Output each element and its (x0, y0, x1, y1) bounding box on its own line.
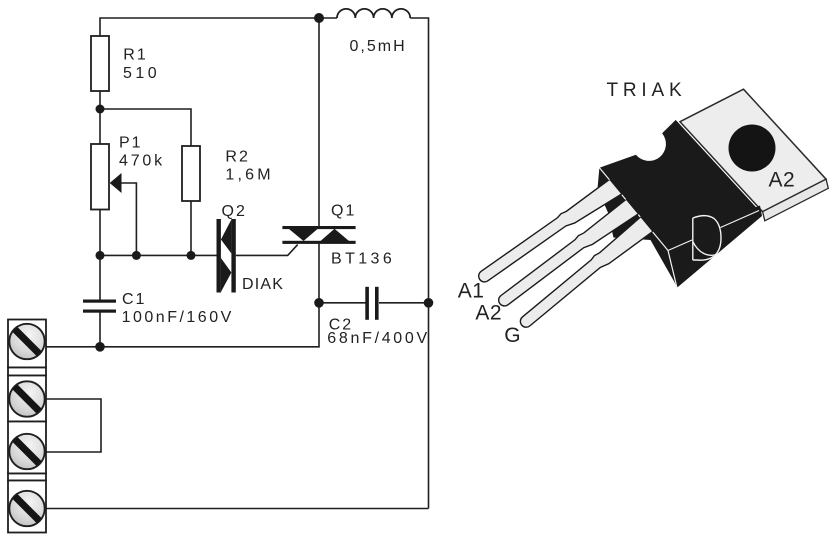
wire R2 bottom to node B rail (190, 201, 192, 255)
wire jumper terminal 2 to terminal 3 (46, 399, 101, 452)
label R1 value (123, 47, 160, 83)
svg-text:DIAK: DIAK (242, 276, 284, 293)
svg-text:510: 510 (123, 65, 160, 82)
wire right rail down from inductor (410, 18, 428, 509)
svg-text:BT136: BT136 (331, 250, 395, 267)
junction node B left (P1 bottom) (96, 251, 105, 260)
terminal screw 4 (9, 491, 44, 526)
wire C1 bottom lead (99, 313, 101, 347)
junction node C2 right (424, 298, 434, 308)
potentiometer P1 body (91, 144, 109, 210)
junction node A (R1/P1/R2) (96, 105, 105, 114)
triac Q1 (282, 226, 355, 244)
svg-text:Q2: Q2 (222, 203, 247, 220)
wire triac bottom to C1 node rail (100, 244, 319, 347)
inductor L1 0,5mH (337, 9, 410, 18)
wire node A to R2 top (100, 109, 191, 146)
terminal screw 1 (9, 324, 44, 359)
label C2 value (327, 316, 430, 347)
svg-text:A2: A2 (769, 168, 796, 191)
terminal X1 cell 1 (8, 320, 46, 368)
terminal X1 cell 2 (8, 376, 46, 422)
TO-220 leg A1 (475, 175, 626, 289)
terminal X1 cell 4 (8, 481, 46, 533)
junction node top rail / triac (314, 13, 324, 23)
TO-220 leg G (517, 213, 658, 335)
junction node C2 left (314, 298, 324, 308)
svg-text:P1: P1 (119, 135, 143, 152)
wire bottom rail to terminal 4 (46, 508, 429, 510)
label R2 value (225, 149, 273, 184)
TO-220 package: metal tab (680, 89, 828, 221)
terminal block divider 2 (8, 474, 46, 481)
resistor R1 (91, 36, 109, 91)
wire C2 left lead (319, 302, 366, 304)
TO-220 body front face (598, 168, 678, 288)
svg-text:R2: R2 (225, 149, 249, 166)
wire diac to triac gate (236, 245, 298, 256)
wire P1 bottom to node B (99, 210, 101, 256)
junction node R2 bottom (187, 251, 196, 260)
TO-220 body top face with corner notch (599, 120, 759, 251)
capacitor C2 (365, 287, 378, 320)
wire top rail from R1 top to inductor (100, 18, 337, 36)
wire R1 bottom to node A (99, 91, 101, 144)
TO-220 leg A2 (495, 195, 643, 313)
svg-text:R1: R1 (123, 47, 147, 64)
resistor R2 (182, 146, 200, 201)
TO-220 mounting hole (729, 125, 776, 172)
svg-text:A2: A2 (475, 302, 502, 325)
potentiometer P1 wiper arrow (110, 173, 122, 193)
svg-text:Q1: Q1 (331, 203, 356, 220)
svg-text:G: G (504, 324, 521, 347)
label C1 value (122, 291, 234, 326)
label P1 value (119, 135, 165, 170)
wire P1 wiper to node B rail (121, 183, 136, 255)
svg-text:A1: A1 (458, 279, 485, 302)
terminal screw 2 (9, 381, 44, 416)
terminal block divider 1 (8, 368, 46, 376)
svg-text:0,5mH: 0,5mH (350, 38, 407, 55)
wire node B rail to diac (100, 254, 217, 256)
junction node wiper (132, 251, 141, 260)
terminal screw 3 (9, 434, 44, 469)
svg-text:100nF/160V: 100nF/160V (122, 309, 234, 326)
wire C1 vertical (99, 255, 101, 299)
svg-text:TRIAK: TRIAK (607, 80, 687, 101)
diac Q2 (217, 219, 236, 293)
capacitor C1 (83, 300, 116, 313)
terminal X1 cell 3 (8, 422, 46, 474)
TO-220 body edge highlights (599, 168, 759, 288)
svg-text:C1: C1 (122, 291, 146, 308)
TO-220 body right face (663, 206, 762, 288)
wire triac anode top (318, 18, 320, 226)
wire terminal 1 to C1 node (46, 346, 100, 348)
junction node C1 bottom (95, 342, 105, 352)
svg-text:68nF/400V: 68nF/400V (327, 330, 430, 347)
wire C2 right lead (379, 302, 429, 304)
svg-text:470k: 470k (119, 153, 165, 170)
svg-text:1,6M: 1,6M (225, 166, 273, 183)
TO-220 side notch (693, 216, 721, 261)
